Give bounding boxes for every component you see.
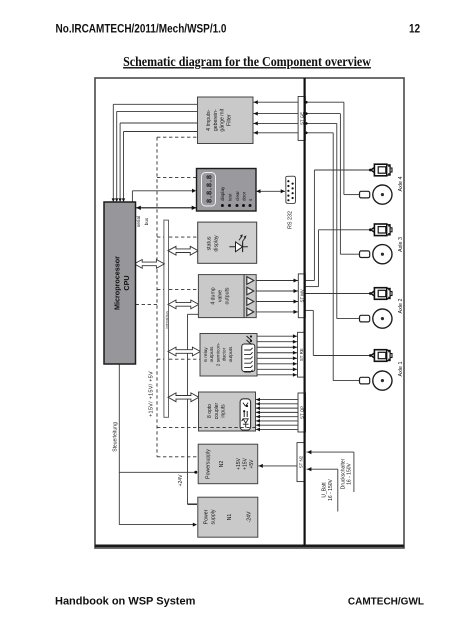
wire impulse box to ST GE 2 xyxy=(253,112,298,116)
junction dot at N2 input xyxy=(194,471,197,474)
svg-text:Axle 1: Axle 1 xyxy=(398,362,404,377)
wire ST OP to opto input 3 xyxy=(256,406,299,410)
microprocessor CPU xyxy=(104,202,136,364)
dump valve axle 2 xyxy=(369,288,392,300)
svg-text:N2: N2 xyxy=(219,461,225,468)
svg-text:ST RE: ST RE xyxy=(299,348,304,361)
main unit right border xyxy=(304,78,306,546)
svg-text:bus: bus xyxy=(144,217,149,225)
wire dashed stub to power supply N2 xyxy=(157,456,198,458)
wire ST MV to axle 2 valve xyxy=(305,293,369,295)
label Steuerleitung xyxy=(113,422,119,452)
svg-text:4 dump: 4 dump xyxy=(211,287,217,304)
svg-text:16 - 150V: 16 - 150V xyxy=(328,478,334,500)
label Axle 4 xyxy=(398,177,404,192)
label Druckschalter 16-150V xyxy=(340,458,352,489)
svg-text:CAMTECH/GWL: CAMTECH/GWL xyxy=(348,597,424,608)
svg-text:ST N2: ST N2 xyxy=(298,455,303,468)
wire ST OP to opto input 6 xyxy=(256,419,299,423)
junction dot ST GE output 4 xyxy=(305,132,308,135)
label Axle 3 xyxy=(398,237,404,252)
footer camtech xyxy=(348,597,424,608)
wire ST OP to opto input 2 xyxy=(256,402,299,406)
wire relay output 7 to ST RE xyxy=(257,367,298,371)
wire impulse input 3 to CPU xyxy=(118,123,197,202)
bus arrow internal bus to dump valve outputs xyxy=(168,300,199,309)
wire ST GE to axle 3 sensor xyxy=(305,114,360,255)
junction dot ST GE output 3 xyxy=(305,122,308,125)
connector ST OP xyxy=(298,393,306,432)
svg-text:status: status xyxy=(206,236,212,250)
display unit box xyxy=(197,169,257,212)
opto coupler inputs box xyxy=(199,392,256,431)
svg-text:8.8.8.8: 8.8.8.8 xyxy=(207,174,215,203)
svg-text:supply: supply xyxy=(211,509,217,524)
svg-text:+5V: +5V xyxy=(249,459,255,469)
svg-text:Microprocessor: Microprocessor xyxy=(113,256,122,310)
svg-text:2 semicon-: 2 semicon- xyxy=(215,342,221,366)
wire impulse box to ST GE 1 xyxy=(253,100,298,104)
svg-text:inputs: inputs xyxy=(221,404,227,418)
svg-text:+15V/ +15V/ +5V: +15V/ +15V/ +5V xyxy=(149,371,155,417)
dump valve axle 3 xyxy=(369,224,392,236)
junction dot ST GE output 2 xyxy=(305,112,308,115)
wire relay output 1 to ST RE xyxy=(257,334,298,338)
relay outputs box xyxy=(200,334,257,377)
label +15V/+15V/+5V xyxy=(149,371,155,417)
wire ST OP to opto input 1 xyxy=(256,398,299,402)
wire dashed stub to impulse box xyxy=(157,136,198,138)
wire dashed overlay opto bottom xyxy=(198,427,256,429)
wire dump valve output 4 to ST MV xyxy=(256,310,298,314)
svg-text:test: test xyxy=(227,193,232,201)
svg-text:Schematic diagram for the Comp: Schematic diagram for the Component over… xyxy=(123,53,371,69)
bus arrow internal bus to relay outputs xyxy=(168,347,200,356)
wire ST N2 to N2 xyxy=(258,464,299,468)
svg-text:8 opto: 8 opto xyxy=(207,404,213,418)
bus arrow internal bus to status display xyxy=(168,246,198,255)
internal bus xyxy=(164,220,169,417)
svg-text:valve: valve xyxy=(218,290,224,302)
footer handbook xyxy=(55,596,196,608)
wire impulse input 2 to CPU xyxy=(115,111,198,202)
svg-text:Steuerleitung: Steuerleitung xyxy=(113,422,119,452)
wire display to RS232 xyxy=(256,189,285,193)
label RS 232 xyxy=(287,211,293,229)
svg-text:Power: Power xyxy=(204,509,210,524)
svg-text:serial: serial xyxy=(136,216,141,227)
label +24V xyxy=(178,474,184,486)
svg-text:outputs: outputs xyxy=(225,287,231,304)
svg-text:Axle 4: Axle 4 xyxy=(398,177,404,192)
svg-text:geberein-: geberein- xyxy=(213,109,219,131)
wire dashed stub along opto coupler bottom xyxy=(157,427,256,429)
power supply N2 box xyxy=(198,444,258,484)
wire ST GE to axle 4 sensor xyxy=(305,102,360,194)
wire relay output 5 to ST RE xyxy=(257,356,298,360)
label Axle 1 xyxy=(398,362,404,377)
junction dot ST GE output 1 xyxy=(305,101,308,104)
power supply N1 box xyxy=(198,497,258,537)
wire ST MV to axle 1 valve xyxy=(305,310,369,355)
wire ST OP to opto input 7 xyxy=(256,423,299,427)
svg-text:-24V: -24V xyxy=(247,511,253,522)
dump valve outputs box xyxy=(198,275,256,318)
label Axle 2 xyxy=(398,299,404,314)
connector ST N2 xyxy=(297,443,305,482)
wire dashed stub to dump valve outputs xyxy=(157,288,198,290)
wire impulse input 1 to CPU xyxy=(112,104,198,202)
wheel sensor axle 3 xyxy=(360,245,393,264)
svg-text:coupler: coupler xyxy=(214,402,220,419)
wire relay output 4 to ST RE xyxy=(257,351,298,355)
wire ST OP to opto input 8 xyxy=(256,428,299,432)
header page number xyxy=(409,23,420,36)
connector ST RE xyxy=(298,332,306,377)
svg-text:door: door xyxy=(241,191,246,201)
label U_Batt 16-150V xyxy=(321,478,333,500)
wire CPU to display control xyxy=(132,189,196,202)
svg-text:internal bus: internal bus xyxy=(165,311,169,329)
bus arrow internal bus to opto coupler inputs xyxy=(168,393,199,402)
svg-text:outputs: outputs xyxy=(228,346,234,362)
svg-text:RS 232: RS 232 xyxy=(287,211,293,229)
wire +15V/+5V dashed power line vertical xyxy=(156,137,158,457)
wire dashed stub to CPU xyxy=(136,304,157,306)
wire dump valve output 3 to ST MV xyxy=(256,300,298,304)
svg-text:No.IRCAMTECH/2011/Mech/WSP/1.0: No.IRCAMTECH/2011/Mech/WSP/1.0 xyxy=(56,23,227,36)
header document number xyxy=(56,23,227,36)
wire relay output 3 to ST RE xyxy=(257,345,298,349)
wire relay output 2 to ST RE xyxy=(257,340,298,344)
svg-text:gänge mit: gänge mit xyxy=(220,108,226,131)
wire dump valve output 1 to ST MV xyxy=(256,279,298,283)
svg-text:Powersupply: Powersupply xyxy=(206,449,212,479)
svg-text:ductor: ductor xyxy=(222,347,228,361)
status display box xyxy=(198,222,257,263)
svg-text:4 Impuls-: 4 Impuls- xyxy=(206,109,212,131)
svg-text:CPU: CPU xyxy=(122,275,131,290)
wire Steuerleitung vertical from CPU xyxy=(119,364,197,527)
wheel sensor axle 2 xyxy=(360,309,393,328)
wire serial bus CPU to display xyxy=(136,206,197,210)
label serial bus xyxy=(136,216,149,227)
RS232 DB9 connector xyxy=(286,176,296,203)
outer frame xyxy=(95,78,404,548)
wire impulse box to ST GE 4 xyxy=(253,131,298,135)
svg-text:+15V: +15V xyxy=(236,457,242,469)
wire ST OP to opto input 5 xyxy=(256,415,299,419)
connector ST MV xyxy=(298,274,305,318)
wire relay output 8 to ST RE xyxy=(257,373,298,377)
svg-text:Axle 2: Axle 2 xyxy=(398,299,404,314)
svg-text:6 relay: 6 relay xyxy=(203,347,209,362)
bus arrow CPU to internal bus xyxy=(134,260,164,269)
wire dashed stub to relay outputs xyxy=(157,358,200,360)
wire +24V from N1 to dump valve outputs xyxy=(188,314,199,504)
svg-text:display: display xyxy=(220,186,225,201)
wire ST OP to opto input 4 xyxy=(256,410,299,414)
dump valve axle 1 xyxy=(369,350,392,362)
dump valve axle 4 xyxy=(369,164,392,176)
svg-text:outputs: outputs xyxy=(209,346,215,362)
svg-text:N1: N1 xyxy=(227,514,233,521)
wire impulse box to ST GE 3 xyxy=(253,121,298,125)
bottom border thick xyxy=(95,544,404,547)
wire Steuerleitung branch to N2 xyxy=(119,471,194,473)
svg-text:+15V: +15V xyxy=(243,457,249,469)
svg-text:16 - 150V: 16 - 150V xyxy=(347,462,353,484)
wire dashed stub to display box xyxy=(157,176,197,178)
svg-text:Druckschalter: Druckschalter xyxy=(340,458,346,489)
svg-text:U_Batt: U_Batt xyxy=(321,482,327,498)
wheel sensor axle 1 xyxy=(360,371,393,390)
svg-text:clear: clear xyxy=(235,191,240,201)
title xyxy=(123,53,371,69)
wire Druckschalter to ST N2 xyxy=(307,450,354,492)
wire ST MV to axle 4 valve xyxy=(305,170,369,281)
wire impulse input 4 to CPU xyxy=(122,132,198,203)
wire U_Batt to ST N2 xyxy=(307,467,338,511)
wire relay output 6 to ST RE xyxy=(257,362,298,366)
svg-text:Handbook on WSP System: Handbook on WSP System xyxy=(55,596,196,608)
wire dump valve output 2 to ST MV xyxy=(256,289,298,293)
impulse inputs box xyxy=(198,97,254,144)
wheel sensor axle 4 xyxy=(360,185,393,204)
wire dashed stub to status display xyxy=(157,236,198,238)
connector ST GE xyxy=(298,97,305,141)
svg-text:Filter: Filter xyxy=(226,114,232,126)
svg-text:display: display xyxy=(213,235,219,252)
svg-text:+24V: +24V xyxy=(178,474,184,486)
wire ST MV to axle 3 valve xyxy=(305,230,369,287)
wire ST GE to axle 2 sensor xyxy=(305,123,360,318)
svg-text:12: 12 xyxy=(409,23,420,36)
svg-text:Axle 3: Axle 3 xyxy=(398,237,404,252)
wire ST GE to axle 1 sensor xyxy=(305,133,360,381)
